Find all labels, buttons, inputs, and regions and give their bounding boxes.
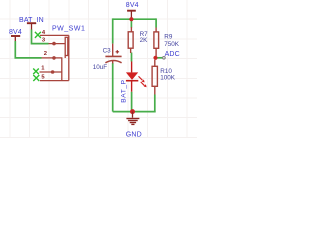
no-connect X pin 4 (35, 32, 41, 38)
wire bottom rail GND (113, 111, 156, 113)
svg-text:10uF: 10uF (93, 64, 108, 71)
LED BAT_P (120, 62, 146, 103)
wire LED to bottom rail (131, 92, 133, 112)
wire 8V4 to switch pin 2 (15, 41, 41, 58)
wire left column to C3 (112, 18, 114, 43)
supply 8V4 top (126, 2, 139, 19)
junction dot 8V4 (129, 17, 133, 21)
junction dot GND (130, 109, 135, 114)
switch PW_SW1 (40, 35, 69, 80)
wire R7 to LED (131, 53, 133, 62)
wire junction to R7 (130, 19, 132, 27)
wire right column bottom (154, 95, 156, 113)
svg-text:BAT_P: BAT_P (120, 79, 127, 102)
switch contact circle pin 1 (51, 70, 55, 74)
resistor R7 (128, 27, 148, 53)
resistor R10 (152, 60, 176, 95)
svg-text:C3: C3 (103, 47, 112, 54)
wire ADC stub (156, 57, 164, 59)
pin 5 line and housing bottom (40, 80, 69, 82)
svg-text:R9: R9 (164, 33, 173, 40)
no-connect X pin 1 (33, 69, 39, 75)
node ADC (163, 51, 180, 59)
pin 3 line (40, 43, 65, 45)
junction dot ADC (153, 56, 157, 60)
ground GND (126, 112, 142, 139)
svg-text:PW_SW1: PW_SW1 (52, 25, 85, 32)
housing right edge (68, 35, 70, 80)
svg-text:100K: 100K (160, 75, 176, 82)
supply BAT_IN (19, 17, 44, 30)
capacitor C3 (93, 44, 122, 71)
svg-text:8V4: 8V4 (9, 29, 22, 36)
switch contact circle pin 2 (52, 56, 56, 60)
resistor R9 (154, 28, 180, 57)
wire BAT_IN to switch pin 3 (32, 30, 49, 44)
svg-text:GND: GND (126, 131, 142, 138)
pin 1 line (40, 71, 62, 73)
wire C3 to bottom rail (112, 63, 114, 112)
svg-text:750K: 750K (164, 41, 180, 48)
svg-text:8V4: 8V4 (126, 2, 139, 9)
svg-text:2: 2 (44, 51, 47, 57)
pin 2 line (40, 58, 62, 81)
slider bar (65, 37, 68, 55)
wire top rail 8V4 (113, 18, 156, 20)
switch contact circle pin 3 (52, 42, 56, 46)
polarity plus mark (116, 50, 120, 53)
no-connect X pin 5 (33, 75, 39, 81)
svg-text:2K: 2K (140, 37, 149, 44)
wire right column top to R9 (155, 18, 157, 27)
svg-text:ADC: ADC (165, 51, 180, 58)
pin 4 line and housing top (40, 34, 69, 36)
supply 8V4 left (9, 29, 22, 42)
